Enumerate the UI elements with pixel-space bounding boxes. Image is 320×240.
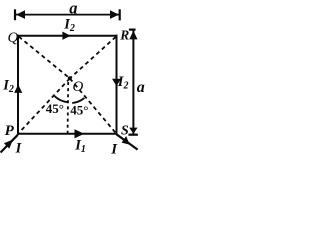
svg-text:I2: I2 xyxy=(117,74,129,92)
dimension line a (right) xyxy=(128,30,138,135)
current arrow I2 on left side xyxy=(14,85,22,93)
current arrow I1 on bottom side xyxy=(75,129,85,138)
svg-text:45°: 45° xyxy=(70,103,88,118)
svg-text:45°: 45° xyxy=(46,101,64,116)
svg-text:I: I xyxy=(110,141,118,157)
dashed diagonal Q to O xyxy=(19,37,70,79)
angle arc right 45 xyxy=(72,98,84,103)
wire PS (bottom side of square) xyxy=(17,133,118,135)
svg-text:S: S xyxy=(121,123,129,138)
current lead I out of S xyxy=(117,134,138,149)
dashed diagonal O to P xyxy=(19,78,70,133)
svg-text:I2: I2 xyxy=(63,16,75,34)
svg-text:a: a xyxy=(69,0,77,17)
dashed diagonal R to O xyxy=(70,37,116,79)
angle arc left 45 xyxy=(55,96,68,102)
node O (center point) xyxy=(68,76,72,80)
wire QR (top side of square) xyxy=(17,35,118,37)
dashed vertical from O to bottom side xyxy=(67,82,70,133)
svg-text:R: R xyxy=(119,27,129,42)
svg-text:I1: I1 xyxy=(74,138,86,156)
svg-text:I2: I2 xyxy=(2,78,14,96)
dashed diagonal O to S xyxy=(70,78,116,133)
svg-text:a: a xyxy=(137,79,145,96)
svg-text:O: O xyxy=(73,79,84,95)
current arrow I2 on right side xyxy=(112,79,121,87)
current arrow I2 on top side xyxy=(62,32,70,40)
svg-text:I: I xyxy=(15,140,23,156)
current lead I into P xyxy=(1,135,18,153)
svg-text:Q: Q xyxy=(8,30,19,46)
svg-text:P: P xyxy=(5,123,15,139)
dimension line a (top) xyxy=(15,9,120,20)
wire QP (left side of square) xyxy=(17,35,19,135)
wire RS (right side of square) xyxy=(116,35,118,135)
